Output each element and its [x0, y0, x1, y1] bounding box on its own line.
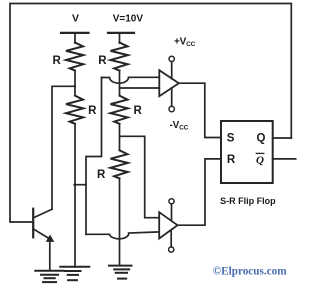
- transistor Q1 emitter: [33, 229, 48, 238]
- svg-text:©Elprocus.com: ©Elprocus.com: [213, 266, 287, 278]
- resistor R1 (left chain top): [66, 43, 83, 71]
- svg-text:Q: Q: [257, 133, 266, 145]
- wire left sense vertical: [86, 78, 102, 235]
- svg-text:R: R: [88, 105, 97, 117]
- wire op-amp U1 non-inverting input with crossover dip: [102, 77, 160, 83]
- wire U2 +V pin: [171, 204, 173, 221]
- svg-text:R: R: [52, 55, 61, 67]
- ground G1: [35, 271, 64, 282]
- ground G3: [109, 266, 132, 279]
- wire R5 down to ground: [119, 178, 121, 265]
- svg-text:-VCC: -VCC: [170, 120, 189, 132]
- wire U1 output to S input: [179, 83, 221, 137]
- svg-text:+VCC: +VCC: [174, 37, 196, 49]
- op-amp U2 comparator: [159, 212, 177, 238]
- wire U2 output to R input: [178, 159, 222, 225]
- terminal circle U2 top: [169, 199, 174, 204]
- transistor Q1 base bar: [32, 209, 34, 238]
- transistor Q1 emitter arrow: [46, 235, 53, 241]
- wire bridge to comparator path: [74, 184, 86, 186]
- supply terminal bar V=10V: [108, 32, 134, 34]
- terminal circle +Vcc: [169, 56, 174, 61]
- wire Q-bar output: [273, 158, 296, 160]
- resistor R5 (right chain lower): [111, 150, 128, 178]
- wire R1 to junction: [74, 71, 76, 87]
- S-R flip flop box U3: [221, 121, 273, 183]
- wire R4 to R5: [119, 124, 121, 151]
- wire emitter to ground: [49, 240, 51, 271]
- resistor R2 (left chain bottom): [66, 96, 83, 124]
- terminal circle -Vcc: [169, 106, 174, 111]
- wire R3 to R4 with taps: [119, 71, 121, 96]
- svg-text:V: V: [72, 12, 79, 24]
- wire feedback loop Q to transistor base: [10, 4, 291, 223]
- wire to op-amp U2 inverting input with crossover dip: [86, 232, 159, 239]
- wire junction down to R2: [74, 86, 76, 94]
- wire U1 +Vcc pin: [171, 62, 173, 79]
- wire tap to op-amp U1 inverting input: [120, 87, 160, 89]
- svg-text:R: R: [98, 55, 107, 67]
- transistor Q1 collector: [33, 209, 52, 218]
- op-amp U1 comparator: [159, 70, 179, 96]
- overbar of Q-bar: [256, 152, 264, 154]
- wire U1 -Vcc pin: [171, 88, 173, 107]
- svg-text:R: R: [97, 169, 106, 181]
- svg-text:Q: Q: [256, 154, 264, 166]
- resistor R3 (right chain top): [111, 43, 128, 71]
- svg-text:V=10V: V=10V: [113, 13, 144, 24]
- supply terminal bar V: [61, 32, 89, 34]
- wire tap junction to op-amp U2 input: [120, 136, 160, 217]
- svg-text:S: S: [227, 133, 235, 145]
- wire junction to collector drop: [52, 86, 75, 209]
- wire Q output to feedback: [273, 137, 292, 139]
- svg-text:S-R Flip Flop: S-R Flip Flop: [220, 196, 276, 206]
- wire U2 -V pin: [170, 230, 172, 247]
- resistor R4 (right chain middle): [111, 96, 128, 124]
- svg-text:R: R: [133, 105, 142, 117]
- wire V=10V bar to R3: [119, 33, 121, 43]
- ground G2: [60, 267, 89, 280]
- svg-text:R: R: [227, 154, 236, 166]
- wire R2 down to ground: [74, 124, 76, 267]
- terminal circle U2 bottom: [169, 247, 174, 252]
- wire V bar to R1: [74, 33, 76, 43]
